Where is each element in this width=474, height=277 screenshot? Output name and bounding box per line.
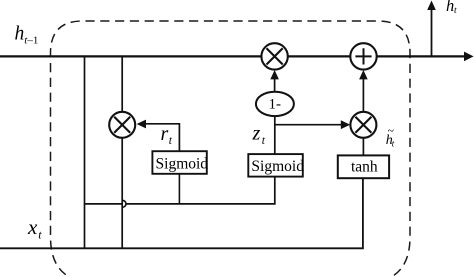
svg-text:r: r bbox=[161, 123, 169, 145]
svg-text:–1: –1 bbox=[26, 35, 38, 47]
wire: z branch right to candidate multiply bbox=[275, 124, 342, 126]
svg-text:x: x bbox=[27, 215, 38, 239]
svg-text:z: z bbox=[252, 123, 261, 145]
arrowhead: into plus bbox=[359, 70, 368, 79]
svg-text:t: t bbox=[454, 6, 457, 16]
wire: vertical B upper (h line to reset multiply) bbox=[121, 56, 123, 111]
svg-text:h: h bbox=[15, 24, 25, 45]
svg-text:t: t bbox=[169, 135, 173, 147]
wire: mid bus left segment (A to hop) bbox=[85, 203, 123, 205]
svg-text:tanh: tanh bbox=[351, 158, 378, 175]
svg-text:t: t bbox=[262, 135, 266, 147]
wire: candidate multiply down to tanh bbox=[362, 138, 364, 155]
wire: x_t input line and riser to tanh bbox=[0, 178, 363, 248]
svg-text:t: t bbox=[392, 139, 395, 149]
arrowhead: into reset multiply bbox=[137, 120, 146, 129]
wire: candidate multiply up to plus bbox=[362, 79, 364, 112]
dashed cell boundary bbox=[51, 21, 411, 277]
multiply node (candidate scale) bbox=[350, 112, 376, 138]
ellipse 1- (one minus) bbox=[256, 92, 294, 116]
box tanh bbox=[338, 155, 389, 178]
wire: z line from sigmoid2 up to 1- ellipse bbox=[274, 116, 276, 154]
svg-text:1-: 1- bbox=[268, 96, 281, 112]
box sigmoid 1 (reset gate) bbox=[152, 151, 206, 174]
wire: r_t feed (from sigmoid1 up and left into reset multiply) bbox=[145, 124, 180, 151]
arrowhead: into top multiply bbox=[270, 70, 279, 79]
wire: main h line bbox=[0, 55, 466, 57]
wire: 1- up to first multiply bbox=[274, 79, 276, 92]
arrowhead: h_t up bbox=[427, 1, 436, 11]
wire: h_t branch up bbox=[431, 9, 433, 56]
svg-text:t: t bbox=[38, 227, 42, 241]
box sigmoid 2 (update gate) bbox=[248, 154, 302, 177]
multiply node (forget/top) bbox=[261, 43, 287, 69]
arrowhead: into candidate multiply bbox=[341, 120, 350, 129]
wire: mid bus right segment (hop to sigmoid2) bbox=[126, 177, 275, 204]
wire: vertical A from h line down to x line bbox=[84, 56, 86, 248]
arrowhead: h output right bbox=[464, 52, 474, 62]
wire: sigmoid1 stub down to mid bus bbox=[178, 174, 180, 204]
svg-text:Sigmoid: Sigmoid bbox=[251, 158, 304, 175]
wire hop over vertical B bbox=[123, 200, 126, 207]
multiply node (reset gate) bbox=[109, 112, 135, 138]
svg-text:~: ~ bbox=[388, 125, 394, 137]
svg-text:Sigmoid: Sigmoid bbox=[156, 155, 209, 172]
wire: vertical B lower (reset multiply to x line) bbox=[121, 138, 123, 248]
plus node (add) bbox=[350, 43, 376, 69]
svg-text:h: h bbox=[446, 0, 454, 15]
